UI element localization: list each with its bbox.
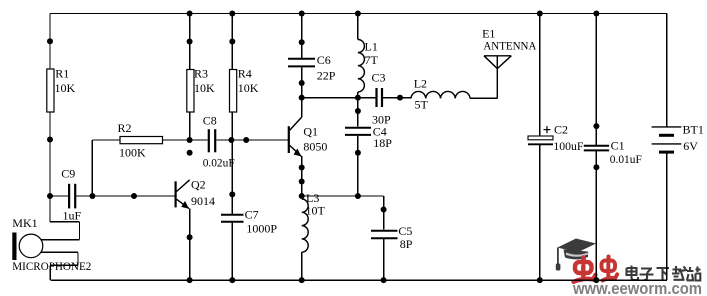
wire mic bottom terminal to ground rail <box>41 252 78 280</box>
svg-text:C7: C7 <box>245 208 259 222</box>
svg-text:10T: 10T <box>306 204 326 218</box>
node dot Q2 emitter <box>187 234 193 240</box>
node dot Q1 emitter y181 <box>299 179 305 185</box>
svg-text:22P: 22P <box>317 68 336 82</box>
wire left rail upper <box>49 14 51 70</box>
transistor Q2 9014 <box>176 180 190 280</box>
node dot C4 branch y111 <box>355 108 361 114</box>
svg-text:Q1: Q1 <box>303 125 318 139</box>
node dot C6 y42 <box>299 39 305 45</box>
junction R4 C8 wire <box>228 137 234 143</box>
node dot R3 y41 <box>187 39 193 45</box>
svg-text:8P: 8P <box>400 237 413 251</box>
svg-text:10K: 10K <box>194 81 215 95</box>
svg-text:0.01uF: 0.01uF <box>610 152 642 166</box>
capacitor C8 <box>209 129 289 152</box>
node dot Q2 collector <box>187 150 193 156</box>
wire left rail lower <box>49 112 51 222</box>
inductor L1 7T <box>358 14 365 98</box>
junction R2 drop C9 wire <box>89 193 95 199</box>
capacitor C5 <box>371 196 398 280</box>
wire L3/C5 node <box>302 195 384 197</box>
node dot C8 wire x246 <box>243 137 249 143</box>
junction C3 L2 node <box>397 95 403 101</box>
junction ground C7 <box>229 277 235 283</box>
svg-text:R1: R1 <box>55 67 69 81</box>
capacitor C2 electrolytic <box>528 14 553 281</box>
svg-text:1000P: 1000P <box>246 222 277 236</box>
svg-text:R4: R4 <box>238 67 252 81</box>
svg-text:R3: R3 <box>194 67 208 81</box>
junction L1 C3 node <box>355 95 361 101</box>
junction ground Q2 emitter <box>187 277 193 283</box>
battery BT1 <box>652 127 682 152</box>
watermark red insect character 2 <box>602 257 618 281</box>
junction oscillator node Q1 <box>299 95 305 101</box>
junction ground C1 <box>593 277 599 283</box>
capacitor C3 <box>377 88 412 107</box>
capacitor C7 <box>221 140 244 280</box>
svg-text:C6: C6 <box>317 53 331 67</box>
node dot C1 line y126 <box>593 123 599 129</box>
svg-text:ANTENNA: ANTENNA <box>483 39 536 53</box>
junction top rail C6 <box>299 11 305 17</box>
transistor Q1 8050 <box>289 98 302 196</box>
resistor R3 <box>187 14 194 141</box>
svg-text:www.eeworm.com: www.eeworm.com <box>572 280 702 296</box>
antenna E1 <box>484 56 511 99</box>
microphone MK1 <box>12 233 43 261</box>
node dot left rail y139 <box>47 137 53 143</box>
resistor R1 <box>47 69 54 112</box>
svg-text:C1: C1 <box>611 138 625 152</box>
junction top rail R4 <box>229 11 235 17</box>
svg-text:MICROPHONE2: MICROPHONE2 <box>12 259 91 273</box>
node dot base wire Q2 <box>131 193 137 199</box>
wire bottom ground rail <box>50 279 667 281</box>
resistor R4 <box>230 14 237 141</box>
junction left rail C9 <box>47 193 53 199</box>
svg-text:100K: 100K <box>119 145 146 159</box>
svg-text:10K: 10K <box>55 81 76 95</box>
node dot Q1 emitter y167 <box>299 165 305 171</box>
junction top rail L1 <box>355 11 361 17</box>
wire mic top terminal to left rail <box>41 222 80 240</box>
svg-text:18P: 18P <box>373 136 392 150</box>
svg-text:9014: 9014 <box>191 194 215 208</box>
junction ground L3 <box>299 277 305 283</box>
node dot R4 y41 <box>229 39 235 45</box>
svg-text:Q2: Q2 <box>191 178 206 192</box>
svg-text:100uF: 100uF <box>553 139 583 153</box>
resistor R2 <box>92 137 207 197</box>
svg-text:R2: R2 <box>118 121 132 135</box>
svg-text:1uF: 1uF <box>63 208 82 222</box>
capacitor C9 <box>50 184 175 209</box>
node dot C1 line y167 <box>593 164 599 170</box>
svg-text:5T: 5T <box>415 98 429 112</box>
watermark red insect character 1 <box>574 258 596 282</box>
node dot C7 line <box>229 191 235 197</box>
wire top power rail <box>50 13 667 15</box>
wire oscillator node (Q1 collector to C3) <box>302 97 376 99</box>
inductor L3 10T <box>302 199 309 280</box>
svg-text:C8: C8 <box>203 113 217 127</box>
svg-text:0.02uF: 0.02uF <box>203 156 235 170</box>
wire right rail upper <box>666 14 668 127</box>
capacitor C4 <box>345 98 371 196</box>
node dot C6 line y83 <box>299 80 305 86</box>
svg-text:6V: 6V <box>683 139 698 153</box>
svg-text:C3: C3 <box>372 71 386 85</box>
svg-text:10K: 10K <box>238 81 259 95</box>
junction R3 C8 wire <box>187 137 193 143</box>
svg-text:7T: 7T <box>365 53 379 67</box>
node dot C4 line y152 <box>355 150 361 156</box>
svg-text:C9: C9 <box>61 167 75 181</box>
junction top rail C2 <box>537 11 543 17</box>
watermark text dianzi xiazaizhan <box>627 266 701 281</box>
junction ground C5 <box>381 277 387 283</box>
svg-text:C2: C2 <box>554 123 568 137</box>
wire right rail lower <box>666 152 668 280</box>
junction top rail R3 <box>187 11 193 17</box>
junction top rail C1 <box>593 11 599 17</box>
junction C4 L3 wire <box>355 193 361 199</box>
capacitor C6 <box>288 14 315 98</box>
svg-text:MK1: MK1 <box>12 216 37 230</box>
node dot left rail y41 <box>47 38 53 44</box>
capacitor C1 <box>584 14 609 281</box>
junction L3 top node <box>299 193 305 199</box>
svg-text:C5: C5 <box>398 224 412 238</box>
svg-text:BT1: BT1 <box>683 122 704 136</box>
svg-text:L2: L2 <box>414 77 427 91</box>
junction ground C2 <box>537 277 543 283</box>
inductor L2 5T <box>411 91 497 98</box>
svg-text:L1: L1 <box>365 40 378 54</box>
watermark graduation cap <box>556 239 596 271</box>
svg-text:8050: 8050 <box>303 140 327 154</box>
node dot C5 line y209 <box>381 207 387 213</box>
